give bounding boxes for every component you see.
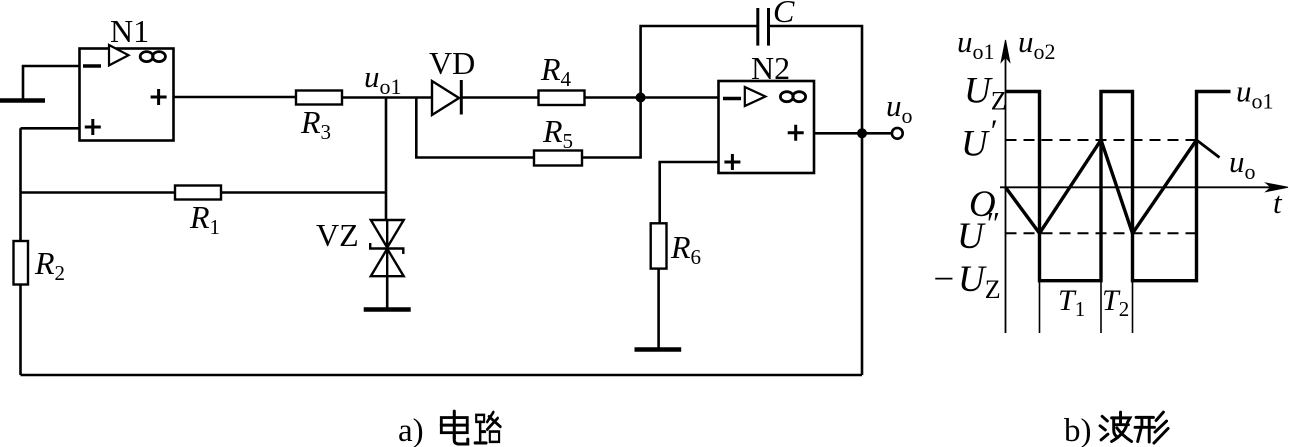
wire: R1 row [21,191,387,194]
wire: output node to terminal [862,132,892,135]
caption b) bo-xing (waveform) [1064,412,1168,447]
resistor R3 [296,91,342,105]
wire: R5 to junction vertical [582,98,641,158]
waveform: thin time marker t3 [1132,281,1134,333]
svg-text:t: t [1273,185,1283,220]
ground (R6 ground bar) [635,347,682,352]
capacitor C [758,8,769,46]
resistor R6 [651,223,667,268]
wire: N1 output to R3 [174,96,297,99]
svg-text:VZ: VZ [316,217,359,253]
wire: u_o1 node vertical down to VZ [385,98,388,221]
caption a) dian-lu (circuit) [398,411,500,447]
wire: R5 branch (down, across, up) [416,98,534,158]
wire: VZ to ground [386,276,389,308]
wire: left vertical rail down to R2 [19,128,22,241]
ground (VZ ground bar) [364,307,411,312]
op-amp U1 (N1) [80,45,174,141]
node B (output junction dot) [857,128,867,138]
node A (junction dot at R4/C/N2) [636,93,646,103]
wire: leader line to u_o label [1197,140,1220,158]
zener VZ (bidirectional) [370,220,404,276]
resistor R1 [175,186,221,200]
waveform: triangle wave u_o [1006,140,1197,233]
wire: bottom bus [21,374,863,377]
resistor R4 [539,91,585,106]
svg-text:a): a) [398,413,424,447]
waveform: horizontal axis t [1000,186,1280,188]
waveform: vertical axis [1005,52,1007,333]
wire: capacitor to right vertical, down to output node [769,26,863,375]
svg-text:b): b) [1064,413,1092,447]
wire: R4 to junction [585,96,719,99]
svg-text:C: C [773,0,795,29]
waveform: thin time marker t2 [1100,281,1102,333]
wire: N1 noninverting input to left vertical [21,127,80,130]
waveform: thin time marker t1 [1039,281,1041,333]
resistor R5 [534,151,582,166]
wire: N1 inverting input to left ground [23,66,80,99]
wire: R6 to ground [657,269,660,348]
wire: VD cathode to R4 [461,96,538,99]
svg-text:N2: N2 [751,50,790,86]
resistor R2 [14,241,29,285]
op-amp U2 (N2) [719,81,815,173]
diode VD [432,80,461,115]
output terminal circle u_o [892,128,903,139]
wire: N2 output to output node [814,132,862,135]
wire: feedback up from junction and top wire to capacitor [641,26,758,98]
wire: N2 noninverting input to R6 [660,162,719,223]
svg-text:VD: VD [429,45,475,81]
ground (left input ground bar) [0,98,45,103]
waveform: dashed level U double prime [1006,232,1197,234]
wire: R2 bottom to bottom bus [19,285,22,376]
waveform: square wave u_o1 [1006,92,1231,281]
wire: R3 to VD anode [342,96,432,99]
svg-text:N1: N1 [110,13,149,49]
waveform: dashed level U prime [1006,139,1197,141]
